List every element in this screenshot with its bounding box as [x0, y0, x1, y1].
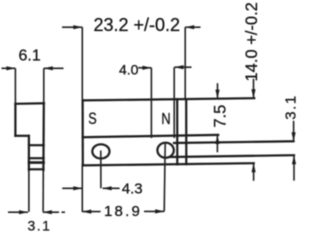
- svg-text:4.3: 4.3: [122, 180, 143, 197]
- svg-text:6.1: 6.1: [19, 47, 41, 64]
- svg-text:23.2 +/-0.2: 23.2 +/-0.2: [94, 15, 181, 35]
- svg-text:S: S: [88, 109, 96, 128]
- svg-text:3.1: 3.1: [28, 218, 52, 234]
- svg-text:7.5: 7.5: [212, 105, 230, 128]
- svg-text:4.0: 4.0: [119, 61, 139, 77]
- svg-text:14.0 +/-0.2: 14.0 +/-0.2: [243, 2, 261, 81]
- svg-text:N: N: [161, 111, 170, 129]
- svg-text:18.9: 18.9: [104, 203, 142, 220]
- svg-text:3.1: 3.1: [282, 94, 299, 119]
